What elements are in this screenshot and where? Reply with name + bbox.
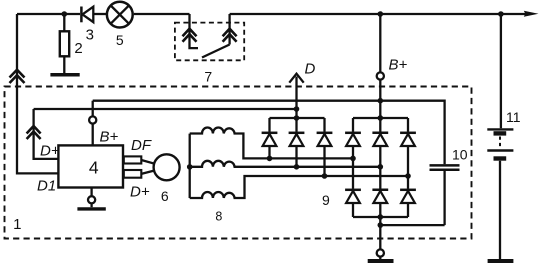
junction dot (A1 to phase A) <box>267 156 273 162</box>
wire: box4 B+ up <box>92 124 94 145</box>
arrow output (to loads) <box>524 11 539 17</box>
aux diode A2 <box>289 118 305 167</box>
D arrowhead <box>289 74 303 83</box>
wire: terminal to alternator ground <box>379 257 381 259</box>
svg-text:4: 4 <box>89 157 99 177</box>
junction dot (resistor tap) <box>62 11 68 17</box>
diode 3 <box>80 7 83 23</box>
capacitor 10 <box>430 164 460 167</box>
stator coil top <box>190 128 353 159</box>
terminal circle (alternator ground) <box>377 249 384 256</box>
wire: D+ drop with chevron to box 4 <box>34 109 59 159</box>
bridge top bus <box>353 117 408 119</box>
junction dot (cap return) <box>378 222 384 228</box>
junction dot (A2 to phase B) <box>294 164 300 170</box>
junction dot (bottom bus) <box>378 214 384 220</box>
switch 7: right wire <box>228 14 230 45</box>
bridge diode T1 <box>345 118 361 189</box>
wire: brushes to rotor <box>141 160 155 174</box>
terminal circle on B+ wire <box>89 116 96 123</box>
regulator box 4 <box>58 145 123 187</box>
junction dot (battery tap) <box>498 11 504 17</box>
wire: B+ bus (bus1) with turn down to capacitor <box>93 101 445 165</box>
junction dot (T3 phase C) <box>405 173 411 179</box>
junction dot (T1 phase A) <box>350 156 356 162</box>
battery 11 <box>487 129 513 259</box>
switch 7: left contact wire <box>190 14 199 48</box>
aux diode top bus <box>270 117 325 119</box>
stator 8: neutral vertical <box>189 134 191 198</box>
aux diode A1 <box>262 118 278 158</box>
connector chevron (switch right) <box>223 29 237 42</box>
wire: B+ vertical from top bus <box>379 14 381 72</box>
wire: battery drop <box>500 14 502 128</box>
svg-text:3: 3 <box>86 26 94 43</box>
svg-text:7: 7 <box>204 68 212 84</box>
wire: resistor to ground <box>63 56 65 73</box>
junction dot (neutral) <box>187 164 193 170</box>
wire: B+ terminal down into rectifier <box>379 80 381 132</box>
lamp 5 <box>107 2 133 28</box>
svg-text:8: 8 <box>215 210 222 224</box>
terminal circle on ground stub <box>88 196 95 203</box>
svg-text:6: 6 <box>161 188 169 204</box>
ground (alternator) <box>368 259 394 263</box>
wire: box4 ground stub <box>90 188 92 196</box>
switch blade <box>202 45 230 58</box>
svg-text:2: 2 <box>74 40 82 57</box>
wire: terminal to B+ bus <box>92 101 94 116</box>
svg-text:D+: D+ <box>130 184 150 201</box>
junction dot (bridge top bus) <box>378 115 384 121</box>
bridge diode B2 <box>372 190 388 249</box>
wire: left vertical down to D1 input <box>17 14 58 173</box>
svg-text:DF: DF <box>131 137 152 154</box>
connector chevron (switch left) <box>183 29 197 42</box>
junction dot (aux diode bus) <box>294 115 300 121</box>
connector chevron on left vertical <box>10 70 25 83</box>
svg-text:B+: B+ <box>100 129 119 146</box>
stator coil bottom <box>190 176 408 198</box>
junction dot (T2 phase B) <box>378 164 384 170</box>
bridge diode T3 <box>400 118 416 189</box>
ground (under box 4) <box>77 207 105 210</box>
bridge diode B3 <box>400 190 416 217</box>
dashed box 1 (regulator assembly) <box>5 87 472 239</box>
svg-text:10: 10 <box>452 147 468 163</box>
wire: capacitor return bus <box>380 224 444 226</box>
brush upper (DF) <box>124 156 142 163</box>
dashed box 7 (ignition switch) <box>175 23 244 61</box>
bridge diode B1 <box>345 190 361 217</box>
junction dot (top wire / B+) <box>378 11 384 17</box>
stator coil middle <box>190 161 381 167</box>
ground (battery) <box>488 259 514 263</box>
bridge bottom bus <box>353 216 408 218</box>
bridge diode T2 <box>372 133 388 189</box>
ground (under resistor) <box>50 73 79 77</box>
svg-text:9: 9 <box>322 192 330 208</box>
wire: dot to resistor <box>63 14 65 31</box>
brush lower (D+) <box>124 170 142 178</box>
resistor 2 <box>60 31 69 56</box>
terminal circle B+ <box>377 72 384 79</box>
wire: terminal to ground <box>90 204 92 208</box>
svg-text:D1: D1 <box>37 178 56 195</box>
rotor 6 <box>154 154 180 180</box>
svg-text:B+: B+ <box>389 57 408 74</box>
connector chevron on D+ wire <box>27 126 41 139</box>
svg-text:D+: D+ <box>40 143 60 160</box>
wire: D bus (bus2) <box>34 108 297 110</box>
svg-text:D: D <box>305 61 316 78</box>
wire: D output vertical with arrow <box>295 77 297 119</box>
junction dot (D bus) <box>294 106 300 112</box>
wire: top bus from left corner to arrow <box>17 13 80 15</box>
svg-text:11: 11 <box>506 109 521 125</box>
junction dot (B+ bus1) <box>378 98 384 104</box>
svg-text:5: 5 <box>116 32 124 48</box>
aux diode A3 <box>317 118 333 176</box>
svg-text:1: 1 <box>13 216 21 233</box>
junction dot (A3 to phase C) <box>322 173 328 179</box>
